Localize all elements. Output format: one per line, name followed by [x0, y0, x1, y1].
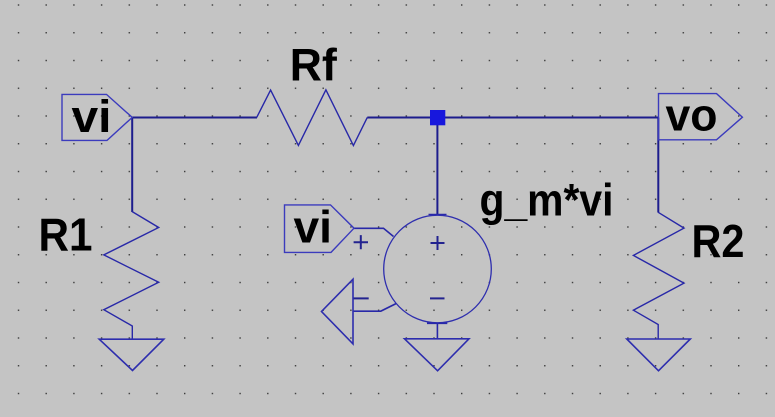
ground under vccs [405, 339, 470, 371]
resistor R2 [633, 212, 684, 339]
vccs G1 minus input lead [353, 304, 396, 312]
vccs G1 plus input lead [354, 228, 394, 236]
ground rotated left at minus input [322, 279, 354, 344]
svg-text:R1: R1 [39, 209, 93, 261]
svg-text:vi: vi [72, 91, 112, 142]
vccs G1 minus input sign [354, 297, 369, 299]
vccs G1 body circle [384, 215, 492, 323]
node junction solid square [430, 110, 445, 125]
vccs G1 plus input sign [354, 235, 368, 249]
wire vi to Rf [132, 117, 258, 119]
svg-text:R2: R2 [692, 215, 745, 267]
ground under R1 [99, 339, 164, 370]
wire G1 bottom to ground [436, 323, 438, 339]
ground under R2 [627, 339, 691, 371]
vccs G1 top pin tick [429, 214, 447, 216]
svg-text:Rf: Rf [290, 39, 338, 90]
vccs G1 bottom pin tick [427, 322, 447, 324]
wire vi junction down to R1 [131, 118, 133, 213]
wire Rf to node [367, 117, 437, 119]
wire vo down to R2 [657, 118, 659, 213]
svg-text:g_m*vi: g_m*vi [480, 174, 614, 225]
vccs G1 inner minus sign [430, 297, 445, 299]
resistor Rf [257, 90, 368, 146]
port vi input left [62, 94, 132, 140]
wire node down to current source [436, 118, 438, 215]
svg-text:vo: vo [666, 90, 718, 141]
port vi middle [285, 205, 355, 253]
svg-text:vi: vi [294, 202, 333, 253]
port vo output right [659, 94, 743, 140]
wire node to vo [438, 117, 659, 119]
vccs G1 inner plus sign [431, 236, 445, 250]
resistor R1 [104, 212, 159, 340]
